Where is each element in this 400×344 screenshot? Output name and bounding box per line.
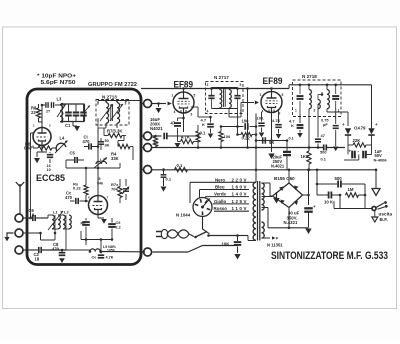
svg-text:N 2718: N 2718 [302,74,317,79]
grid arrow V2 [152,102,172,106]
capacitor C6 18 [23,208,48,221]
svg-text:220V: 220V [232,177,247,182]
ground tuning gang [73,126,80,131]
wire mixer bottom bus [81,231,113,241]
label N 2717 [214,75,229,80]
heater wire from J5 [153,236,238,253]
resistor 4.7K cathode [178,134,199,144]
svg-text:470: 470 [83,139,91,144]
capacitor 10K mains [222,241,242,259]
svg-text:SINTONIZZATORE M.F. G.533: SINTONIZZATORE M.F. G.533 [271,250,388,262]
resistor 1K2 [301,110,312,171]
label C1 [65,123,71,128]
capacitor Ck V1a [47,152,54,172]
transformer T1 core [258,181,260,241]
bridge right wire [303,169,310,206]
svg-text:2: 2 [207,83,209,87]
resistor R7 3.3K [107,129,122,138]
winding row Verde [206,192,250,197]
cap 100 screen [257,112,265,137]
bridge rectifier B155 [273,183,303,208]
gang capacitor Ct1 [65,104,72,122]
svg-text:N-4006: N-4006 [374,157,388,162]
capacitor C9 2.2 [108,218,121,240]
svg-text:OA79: OA79 [354,126,366,131]
cap 500 in bus2 [320,145,327,162]
N2713 core [111,105,113,121]
svg-text:N4021: N4021 [150,126,163,131]
resistor 22K [348,135,372,147]
svg-text:3: 3 [314,109,316,113]
svg-text:L4: L4 [60,136,66,141]
svg-text:K: K [202,122,205,127]
wire mixer plate to N2713 [97,128,100,168]
svg-text:0.1: 0.1 [166,177,172,182]
mains plug [156,229,168,238]
RDT secondary coil [326,84,330,109]
diode D1 OA79 [342,122,351,135]
vertical feed x247 [246,87,249,149]
audio down wire [334,195,372,209]
capacitor C8 470 [52,242,65,263]
mixer cathode [98,215,107,224]
svg-text:5: 5 [194,94,196,98]
svg-text:0.47: 0.47 [24,146,33,151]
pin numbers IFT1 [207,83,242,114]
pin numbers V3 [260,93,284,116]
IF transformer N2717 box [206,82,244,114]
wire ant net [23,215,69,240]
capacitor C5 [66,151,84,164]
capacitor Ci 470 [83,135,98,150]
label N 11351 small [252,241,254,244]
svg-text:9: 9 [191,113,193,117]
ground V1a [34,152,40,163]
wire right rail down [371,85,373,129]
svg-text:5.6pF N750: 5.6pF N750 [41,80,76,86]
plate V3 to rail [270,87,273,91]
label 846 [97,177,103,186]
svg-text:C5: C5 [70,151,76,156]
connector terminal J4 on shield box [141,166,152,174]
capacitor pair C-top [42,102,62,113]
svg-text:L2: L2 [64,210,69,215]
svg-text:uscita: uscita [379,211,393,216]
mixer grid wire [84,200,88,203]
RDT pin labels [295,109,340,113]
bridge left wire [270,188,273,196]
svg-text:100.: 100. [257,116,265,121]
antenna terminal A2 [15,229,23,237]
RDT secondary cap [332,84,339,109]
svg-text:L1: L1 [53,210,58,215]
screen cap 4.7K [201,117,214,138]
label N 11351 [267,242,283,247]
svg-text:Nero: Nero [215,177,225,182]
svg-text:140V: 140V [232,192,247,197]
terminal J3 wire bus2 [152,147,345,149]
diode D2 OA79 [368,122,378,135]
elco 1uF label [374,149,388,163]
svg-text:Rb: Rb [81,222,87,226]
trimmer osc [122,179,129,200]
heater return [271,196,273,198]
svg-text:9: 9 [279,112,281,116]
svg-text:N.4321: N.4321 [284,220,298,225]
svg-text:N 2713: N 2713 [102,94,117,99]
N2713 secondary [117,103,120,124]
resistor 1K [153,135,158,148]
label GRUPPO FM 2722 [88,82,137,88]
bridge top to bus3 [288,169,291,184]
winding row Bleu [200,185,250,190]
box top rail join [97,101,99,105]
svg-text:500: 500 [320,150,327,155]
svg-text:470: 470 [65,195,73,200]
cap 4.7K screen [272,110,282,139]
svg-text:4.7K: 4.7K [106,256,114,260]
svg-text:B.F.: B.F. [380,217,388,222]
T1 primary top wire [249,181,256,183]
RDT tertiary coil [318,92,323,109]
capacitor Ce [92,250,114,259]
cap 500 audio [316,176,365,188]
bridge bottom wire [268,208,309,230]
T1 sec top wire [262,183,271,188]
IF transformer N2713 box [96,100,129,126]
wire 1M junction down [364,184,366,195]
label B155 C60 [274,176,295,181]
N2713 pin labels [97,102,127,124]
front-end shield box GRUPPO FM [27,89,141,265]
gang capacitor Ct2 [73,104,80,122]
uscita gnd [372,211,378,223]
antenna terminal A1 [15,214,23,222]
svg-text:33K: 33K [111,156,119,161]
capacitor C9 50 [98,138,110,150]
elco 30uF [284,204,317,225]
capacitor 47 tert [315,104,326,149]
IFT1 secondary coil [229,88,231,108]
elco 20uF [271,139,291,170]
capacitor AGC [164,133,199,140]
cathode V3 [270,113,273,153]
N2713 bottom wires [98,118,117,128]
N2713 arrows [100,104,123,121]
svg-text:Bleu: Bleu [215,185,225,190]
capacitor 100 coupling [242,118,250,130]
detector output wire [344,155,359,170]
coil L5 [89,245,145,253]
svg-text:1M: 1M [348,187,354,192]
tube EF89 V3 [261,92,282,113]
svg-text:+: + [375,122,378,127]
svg-text:1: 1 [295,109,297,113]
label uscita BF [379,211,393,222]
wire y126 [220,109,256,135]
cap pair ratio [348,145,372,158]
capacitor left of mixer [81,218,90,240]
svg-text:125V: 125V [232,199,247,204]
cap 0.75 [321,108,339,151]
capacitor 47 cathode [171,117,185,134]
ground V3 cathode [268,154,274,159]
svg-text:10: 10 [47,168,51,172]
svg-text:GRUPPO FM 2722: GRUPPO FM 2722 [88,82,137,88]
resistor R4 33K [111,136,133,162]
triode V1b ECC85 mixer [89,196,108,215]
cathode V2 down [183,113,185,132]
grid wire V1a [29,133,33,219]
RDT primary coil [308,84,312,109]
svg-text:C1: C1 [65,123,71,128]
label EF89 first [174,80,194,91]
wires mixer top [66,160,120,196]
triode V1a ECC85 [33,128,51,146]
terminal J4 wire bus3 [152,169,376,171]
svg-text:5: 5 [99,177,101,181]
oscillator coil L3b [94,157,107,168]
svg-text:Verde: Verde [214,192,227,197]
winding row Rosso [214,206,250,211]
antenna terminal A3 [15,246,23,254]
svg-text:1: 1 [172,94,174,98]
svg-text:N 2717: N 2717 [214,75,229,80]
svg-text:EF89: EF89 [263,76,283,87]
ground cathode V2 [175,143,181,148]
label EF89 second [263,76,283,87]
output jack [372,201,388,210]
svg-text:0.1: 0.1 [200,131,206,136]
IFT1 right cap [234,88,240,109]
T1 sec taps [262,197,273,228]
IFT1 sec down wire [228,109,230,118]
terminal J2 wire [152,135,162,137]
bus3 drop gnd right [372,169,380,196]
capacitor 4.7K pin1 [289,114,304,141]
svg-text:4: 4 [262,110,264,114]
svg-text:B155 C60: B155 C60 [274,176,295,181]
N2713 top wires [98,99,141,102]
svg-text:Rosso: Rosso [214,206,228,211]
svg-text:ECC85: ECC85 [36,173,66,184]
coil L4 variable [55,136,68,154]
winding row Nero [190,177,249,182]
IFT1 primary coil [220,88,222,108]
svg-text:L3: L3 [57,97,63,102]
twisted cord [167,230,189,238]
resistor 0.1 meg [196,125,206,149]
resistor 0.22 [236,133,256,141]
switch S1 [189,232,239,239]
RDT sec core [0,0,1,1]
svg-text:47: 47 [321,133,326,138]
switch to transformer [238,236,257,241]
svg-text:K: K [291,123,294,128]
pin numbers V1a [33,124,51,128]
svg-text:0.22: 0.22 [242,135,251,140]
T1 heater out [262,236,280,240]
svg-text:3: 3 [125,102,127,106]
svg-text:* 10pF NPO+: * 10pF NPO+ [37,74,76,80]
top rail to right edge [336,84,372,86]
label ECC85 [36,173,66,184]
RDT wires bottom [309,109,327,112]
resistor 0.1 on bus3 [175,163,188,172]
connector terminal J5 on shield box [141,248,152,256]
resistor R6 0.47 [24,141,56,150]
resistor R7x 70K [111,179,122,203]
tube EF89 V2 [173,92,194,113]
svg-text:2.2: 2.2 [116,225,121,229]
plate wire V1a to R8 [39,104,44,128]
svg-text:500: 500 [335,176,343,181]
gang capacitor Ct3 [80,104,90,122]
pin numbers V2 [172,94,196,117]
svg-text:100: 100 [224,134,231,139]
resistor 1M [345,184,366,197]
pin numbers V1b [88,196,109,200]
svg-text:4: 4 [207,110,209,114]
wire R7 up [104,128,126,136]
winding row Giallo [213,199,250,204]
svg-text:3K: 3K [105,143,110,147]
svg-text:1: 1 [260,93,262,97]
ratio det transformer box [293,80,342,117]
input coils L1 L2 [48,210,71,231]
svg-text:5: 5 [240,83,242,87]
svg-text:N 1044: N 1044 [176,213,191,218]
capacitor Cc 470 [65,191,88,205]
svg-text:4: 4 [174,110,176,114]
svg-text:0.1: 0.1 [321,157,327,162]
connector terminal J2 on shield box [141,132,152,140]
svg-text:N.4021: N.4021 [271,163,285,168]
svg-text:470: 470 [52,246,60,251]
label N 2718 [302,74,317,79]
wire v256 [255,114,258,183]
svg-text:pF: pF [323,122,328,127]
top rail right segment [289,85,336,89]
svg-text:100: 100 [242,118,250,123]
top rail from box [141,88,289,90]
svg-text:160V: 160V [232,185,247,190]
svg-text:5: 5 [282,93,284,97]
connector terminal J3 on shield box [141,144,152,152]
svg-text:+: + [349,149,352,154]
svg-text:0.1: 0.1 [289,137,294,141]
bridge minus arrow [273,192,279,203]
elco 16uF [150,117,163,131]
plate wire V2 to IFT1 [182,87,239,92]
svg-text:10K: 10K [222,241,231,246]
wire RDT to diodes [327,112,348,126]
svg-text:4.7K: 4.7K [272,118,281,123]
cap 0.1 drop [161,168,172,191]
selector feed wire [203,217,210,234]
N2713 primary [106,103,109,124]
note 10pF NPO [37,74,76,87]
svg-text:Ce: Ce [92,256,97,260]
transformer T1 primary [253,182,256,240]
IFT1 bottom leads [212,88,238,109]
label OA79 [354,126,366,131]
coil L3 top [57,97,66,122]
tuning gang frame [61,103,85,123]
svg-text:0.22: 0.22 [73,186,82,191]
grid arrow V3 [229,101,259,117]
tuning gang bottom lead [72,122,74,127]
ground stub near J1 [156,104,162,114]
dipole stub symbol [4,233,13,241]
svg-text:110V: 110V [232,206,247,211]
svg-text:18: 18 [35,256,40,261]
svg-text:N 11351: N 11351 [267,242,283,247]
svg-text:4.7K: 4.7K [181,134,190,139]
resistor R8 22 [31,104,41,122]
label N 1044 [176,213,191,218]
capacitor C2 18 [23,247,66,261]
B+ drop 317 [316,169,319,196]
wire screen V2 [191,107,212,118]
svg-text:10 K: 10 K [324,200,334,205]
transformer T1 HV secondary [262,183,265,210]
IFT1 core [224,88,226,107]
wire 5K [255,137,287,145]
svg-text:Giallo: Giallo [214,199,227,204]
transformer T1 heater secondary [262,222,265,238]
wire box bottom joins [86,238,102,251]
voltage selector N1044 [193,198,212,217]
cathode network V1a [37,146,47,153]
antenna symbol [16,182,24,214]
screen resistor 100 v [219,127,231,149]
IFT1 left cap [208,88,214,109]
selector stair wires [190,182,206,203]
connector terminal J1 on shield box [141,100,152,108]
elco 30uF gnd [305,213,311,234]
wire osc to L5 [66,229,90,250]
label N 2713 [102,94,117,99]
RDT primary cap [297,84,304,115]
cap 10K audio [317,192,341,205]
svg-text:+: + [342,122,345,127]
title SINTONIZZATORE [271,250,388,262]
resistor Rs 0.22 [73,180,88,201]
